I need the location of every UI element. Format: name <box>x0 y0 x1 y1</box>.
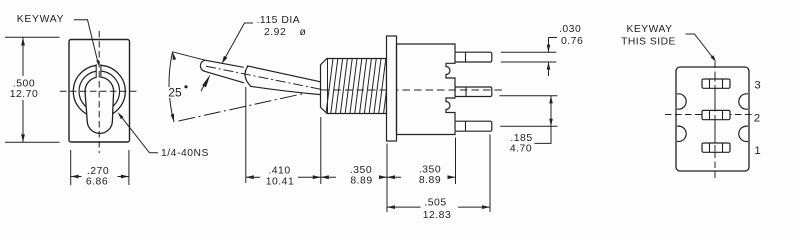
.270 dimension right extension line <box>128 150 130 185</box>
svg-text:.505: .505 <box>424 198 446 209</box>
.030 top arrowhead <box>547 45 551 53</box>
terminal 3 (top, side view) <box>455 52 492 62</box>
.350b right arrowhead <box>448 175 456 179</box>
.500 dimension bottom extension line <box>5 141 60 143</box>
.270 right arrowhead <box>121 175 129 179</box>
bushing outer circle (1/4-40NS thread) <box>73 65 125 117</box>
.030 dimension upper arrow line <box>548 38 550 53</box>
.270 dimension line left arrow segment <box>71 176 82 178</box>
svg-text:6.86: 6.86 <box>86 177 108 188</box>
bushing thread hatch lines <box>326 59 391 113</box>
extension line at bushing left face <box>320 117 322 184</box>
.410 left arrowhead <box>246 175 254 179</box>
svg-text:.185: .185 <box>510 133 532 144</box>
25 degree angle upper side line <box>173 52 206 60</box>
svg-text:1: 1 <box>754 145 760 157</box>
keyway leader line <box>74 20 98 64</box>
degree symbol dot <box>184 85 187 88</box>
.500 dimension line lower segment <box>22 100 24 142</box>
terminal 2 (middle, side view) <box>455 87 492 97</box>
.115 DIA lower arrowhead <box>202 74 210 87</box>
terminal 1 slot (rear view) <box>702 143 730 152</box>
.350a left arrowhead <box>321 175 329 179</box>
.030 dimension lower arrow line <box>548 62 550 76</box>
svg-text:4.70: 4.70 <box>510 144 532 155</box>
rear left upper notch semicircle <box>677 94 686 109</box>
front view: switch housing rectangle <box>69 40 130 143</box>
terminal 2 slot (rear view) inner ticks <box>710 110 723 119</box>
lever mirror position centerline <box>179 90 323 122</box>
25 degree label <box>168 87 184 98</box>
.030 bracket line <box>549 37 558 39</box>
svg-text:KEYWAY: KEYWAY <box>627 24 673 35</box>
side view horizontal centerline <box>322 89 506 91</box>
rear right lower notch semicircle <box>739 126 748 141</box>
svg-text:25: 25 <box>168 86 182 100</box>
keyway this side leader line <box>686 34 714 59</box>
svg-text:12.83: 12.83 <box>423 210 452 221</box>
extension line at terminal ends <box>489 135 491 213</box>
rear view horizontal centerline <box>665 114 753 116</box>
.350 body dimension line <box>387 176 456 178</box>
.115 DIA upper arrowhead <box>222 56 228 64</box>
keyway notch left line <box>95 64 97 78</box>
.350b left arrowhead <box>387 175 395 179</box>
.030 bottom arrowhead <box>547 62 551 70</box>
keyway this side arrowhead <box>711 55 717 62</box>
front view vertical centerline <box>98 31 100 153</box>
body left edge joins plate <box>396 44 398 135</box>
.030 top extension line <box>501 51 557 53</box>
lever top edge <box>205 60 321 82</box>
lever outline (side view bat) <box>200 60 321 94</box>
.500 dimension line upper segment <box>22 38 24 77</box>
.500 dimension top extension line <box>5 36 60 38</box>
svg-text:.270: .270 <box>87 166 109 177</box>
terminal 2 bend tick <box>465 87 467 97</box>
svg-text:8.89: 8.89 <box>350 176 372 187</box>
.410 dimension line <box>246 176 321 178</box>
rear view vertical centerline <box>714 62 716 181</box>
.270 dimension left extension line <box>70 150 72 185</box>
extension line at lever reference <box>245 87 247 183</box>
keyway leader arrowhead <box>96 60 99 66</box>
.505 left arrowhead <box>387 205 395 209</box>
.030 bottom extension line <box>501 61 557 63</box>
svg-text:3: 3 <box>754 80 760 92</box>
.270 left arrowhead <box>71 175 79 179</box>
terminal 3 slot (rear view) inner ticks <box>710 79 723 88</box>
.185 dimension line <box>535 96 552 144</box>
rear centerline dashes over slots <box>714 75 716 158</box>
.500 top arrowhead <box>21 38 25 46</box>
.500 bottom arrowhead <box>21 134 25 142</box>
lever tilted centerline <box>206 66 322 89</box>
svg-text:1/4-40NS: 1/4-40NS <box>161 148 209 159</box>
.115 DIA lower arrow tail <box>201 85 205 92</box>
lever bottom edge <box>205 71 321 94</box>
.185 top extension line <box>499 95 557 97</box>
svg-text:2: 2 <box>754 113 760 125</box>
front mounting plate <box>387 36 397 141</box>
.270 dimension line right arrow segment <box>118 176 129 178</box>
rear right upper notch semicircle <box>739 94 748 109</box>
extension line at body right face <box>455 138 457 185</box>
terminal 3 slot (rear view) <box>702 79 730 88</box>
svg-text:8.89: 8.89 <box>419 175 441 186</box>
front view horizontal centerline <box>60 90 138 92</box>
terminal 1 slot (rear view) inner ticks <box>710 143 723 152</box>
svg-text:THIS SIDE: THIS SIDE <box>621 37 676 48</box>
.185 top arrowhead <box>549 96 553 104</box>
svg-text:12.70: 12.70 <box>10 89 39 100</box>
svg-text:.115 DIA: .115 DIA <box>257 15 301 26</box>
bushing inner ring circle <box>79 71 120 112</box>
svg-text:10.41: 10.41 <box>266 177 295 188</box>
lever rounded tip cap <box>200 60 205 71</box>
25 degree arc <box>169 52 174 122</box>
.410 right arrowhead <box>313 175 321 179</box>
terminal 3 bend tick <box>465 52 467 62</box>
svg-text:.350: .350 <box>350 165 372 176</box>
.185 bottom extension line <box>500 125 557 127</box>
1/4-40NS leader arrowhead <box>118 112 124 119</box>
svg-text:KEYWAY: KEYWAY <box>17 14 64 25</box>
toggle lever (front view, white filled bat) <box>85 77 114 133</box>
.115 DIA leader line <box>226 23 253 57</box>
.505 right arrowhead <box>482 205 490 209</box>
lever collar ellipse arc <box>245 66 251 86</box>
threaded bushing outline <box>321 59 387 114</box>
1/4-40NS leader line <box>120 115 158 153</box>
.350a right arrowhead <box>379 175 387 179</box>
rear view housing rectangle <box>676 67 749 171</box>
svg-text:2.92: 2.92 <box>264 27 286 38</box>
bushing chamfer line <box>327 59 329 113</box>
rear left lower notch semicircle <box>677 126 686 141</box>
.185 bottom arrowhead <box>549 119 553 127</box>
angle arc bottom arrowhead <box>171 114 175 122</box>
terminal 2 slot (rear view) <box>702 110 730 119</box>
svg-text:.030: .030 <box>559 24 581 35</box>
svg-text:.350: .350 <box>419 165 441 176</box>
terminal 1 bend tick <box>465 121 467 131</box>
keyway notch mask <box>96 61 100 78</box>
terminal 1 (bottom, side view) <box>455 121 492 131</box>
angle arc top arrowhead <box>173 52 177 60</box>
svg-text:0.76: 0.76 <box>561 36 583 47</box>
.350 bushing dimension line <box>321 176 387 178</box>
switch body (side view) <box>397 44 456 135</box>
keyway notch right line <box>100 64 102 78</box>
svg-text:.410: .410 <box>268 166 290 177</box>
.505 dimension line <box>387 206 490 208</box>
extension line at plate left face <box>386 144 388 213</box>
svg-text:ø: ø <box>300 27 307 38</box>
